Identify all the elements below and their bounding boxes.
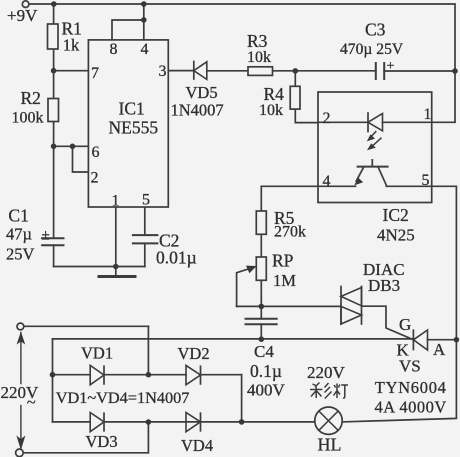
- svg-text:25V: 25V: [6, 245, 35, 264]
- svg-text:10k: 10k: [247, 49, 271, 66]
- svg-text:0.1µ: 0.1µ: [250, 361, 282, 381]
- svg-text:VD3: VD3: [86, 432, 118, 451]
- svg-text:VD1~VD4=1N4007: VD1~VD4=1N4007: [56, 388, 190, 407]
- svg-text:G: G: [399, 315, 411, 334]
- svg-text:VS: VS: [399, 357, 421, 376]
- svg-text:C1: C1: [8, 205, 28, 225]
- svg-text:5: 5: [142, 192, 150, 209]
- svg-text:C3: C3: [365, 20, 386, 40]
- svg-text:R2: R2: [21, 88, 41, 108]
- svg-text:4A 4000V: 4A 4000V: [375, 398, 447, 417]
- svg-text:NE555: NE555: [109, 118, 159, 138]
- svg-text:10k: 10k: [259, 102, 283, 119]
- svg-text:+9V: +9V: [7, 6, 38, 25]
- svg-text:3: 3: [159, 63, 167, 80]
- svg-text:4: 4: [323, 173, 331, 190]
- svg-text:47µ: 47µ: [6, 225, 32, 244]
- svg-text:1: 1: [424, 106, 432, 123]
- svg-text:+: +: [387, 59, 395, 74]
- svg-text:0.01µ: 0.01µ: [156, 248, 197, 268]
- svg-text:8: 8: [110, 41, 118, 58]
- svg-text:VD4: VD4: [181, 436, 213, 455]
- svg-text:100k: 100k: [12, 110, 44, 127]
- svg-text:220V: 220V: [307, 363, 346, 382]
- svg-text:4: 4: [141, 41, 149, 58]
- svg-text:270k: 270k: [274, 223, 306, 240]
- svg-text:DB3: DB3: [368, 276, 400, 295]
- svg-text:1k: 1k: [63, 35, 80, 54]
- svg-text:IC2: IC2: [383, 205, 409, 225]
- svg-text:1N4007: 1N4007: [171, 101, 224, 120]
- svg-text:VD2: VD2: [178, 344, 210, 363]
- svg-text:R4: R4: [264, 84, 285, 104]
- svg-text:7: 7: [91, 65, 99, 82]
- svg-text:VD1: VD1: [81, 344, 113, 363]
- svg-text:470µ 25V: 470µ 25V: [340, 41, 404, 58]
- svg-text:VD5: VD5: [186, 83, 218, 102]
- svg-text:4N25: 4N25: [377, 226, 415, 245]
- svg-text:400V: 400V: [247, 381, 286, 400]
- svg-text:IC1: IC1: [119, 99, 145, 119]
- svg-text:6: 6: [92, 144, 100, 161]
- svg-text:2: 2: [323, 110, 331, 127]
- svg-text:RP: RP: [272, 250, 294, 270]
- svg-text:1M: 1M: [273, 271, 296, 290]
- svg-text:~: ~: [27, 393, 36, 412]
- svg-text:A: A: [433, 340, 446, 359]
- svg-text:1: 1: [112, 193, 120, 210]
- svg-text:5: 5: [422, 172, 430, 189]
- svg-text:±: ±: [42, 228, 50, 244]
- svg-text:TYN6004: TYN6004: [375, 378, 447, 397]
- svg-text:2: 2: [91, 170, 99, 187]
- svg-text:C4: C4: [254, 342, 274, 361]
- svg-text:R3: R3: [247, 31, 268, 51]
- svg-text:HL: HL: [318, 435, 342, 455]
